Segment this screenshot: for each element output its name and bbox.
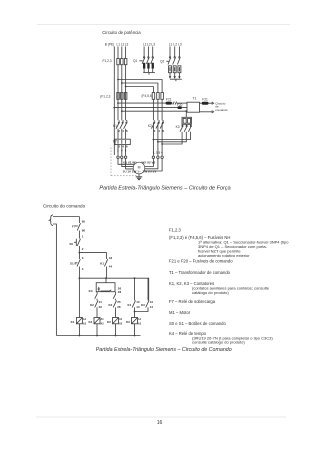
svg-text:acionamento rotativo exterior: acionamento rotativo exterior [198,253,250,258]
svg-text:Q2: Q2 [160,60,164,64]
svg-text:K2: K2 [148,124,152,128]
svg-text:2: 2 [118,129,120,133]
svg-text:T1: T1 [193,96,197,100]
svg-text:5: 5 [126,119,128,123]
svg-text:3~: 3~ [137,169,141,173]
svg-text:4: 4 [122,129,124,133]
svg-text:K1: K1 [100,262,104,266]
svg-text:2: 2 [154,129,156,133]
svg-text:13: 13 [136,300,140,304]
svg-text:K4: K4 [88,320,92,324]
svg-text:6: 6 [126,129,128,133]
svg-text:K3: K3 [141,303,145,307]
svg-text:K1: K1 [113,124,117,128]
svg-text:F20: F20 [177,103,183,107]
svg-text:S1 E: S1 E [70,262,77,266]
svg-text:13: 13 [150,300,154,304]
svg-text:F7: F7 [72,224,76,228]
svg-text:F21: F21 [166,98,172,102]
svg-text:2W 2U 2V: 2W 2U 2V [143,169,157,173]
svg-text:2: 2 [82,247,84,251]
svg-text:1: 1 [82,235,84,239]
svg-text:F1,2,3: F1,2,3 [169,228,182,233]
svg-text:L3: L3 [151,43,155,47]
svg-text:2: 2 [117,150,119,153]
svg-text:L1: L1 [169,43,173,47]
svg-text:4: 4 [121,150,123,153]
svg-text:K1: K1 [127,303,131,307]
svg-text:L3: L3 [178,43,182,47]
svg-text:T1 – Transformador de comando: T1 – Transformador de comando [169,270,231,275]
svg-text:B (PE): B (PE) [105,43,114,47]
svg-text:14: 14 [136,305,140,309]
svg-text:S0: S0 [69,242,73,246]
svg-text:A1: A1 [101,318,105,321]
svg-text:3: 3 [122,119,124,123]
svg-text:5: 5 [162,119,164,123]
svg-text:96: 96 [82,229,86,233]
svg-text:1U 1V 1W: 1U 1V 1W [123,169,137,173]
svg-text:L2: L2 [173,43,177,47]
svg-text:Q1: Q1 [133,59,137,63]
svg-text:K1: K1 [71,320,75,324]
svg-text:A2: A2 [138,323,142,326]
svg-text:1: 1 [154,119,156,123]
svg-text:M1 – Motor: M1 – Motor [169,310,191,315]
svg-text:catálogo do produto): catálogo do produto) [192,290,229,295]
svg-text:A1: A1 [119,318,123,321]
svg-text:(F1,2,3: (F1,2,3 [100,94,110,98]
svg-text:44: 44 [109,265,113,269]
svg-text:A2: A2 [83,323,87,326]
svg-text:comando: comando [215,108,228,112]
svg-text:(F4,5,6): (F4,5,6) [142,94,153,98]
svg-text:16: 16 [157,420,163,426]
svg-text:U1 V1 W1: U1 V1 W1 [123,160,137,164]
svg-text:consulte catálogo do produto): consulte catálogo do produto) [192,340,245,345]
svg-text:Circuito do comando: Circuito do comando [43,204,86,209]
svg-text:F7: F7 [113,140,117,144]
svg-text:L 1 5 4: L 1 5 4 [153,151,163,155]
svg-text:F7 – Relé de sobrecarga: F7 – Relé de sobrecarga [169,299,216,304]
svg-text:A1: A1 [138,318,142,321]
svg-text:F21: F21 [202,98,208,102]
svg-text:6: 6 [162,129,164,133]
svg-text:3: 3 [158,119,160,123]
svg-text:K3: K3 [89,289,93,293]
svg-text:A2: A2 [119,323,123,326]
svg-text:26: 26 [117,305,121,309]
svg-text:L1: L1 [143,43,147,47]
svg-text:43: 43 [109,256,113,260]
svg-text:K2: K2 [108,303,112,307]
svg-text:A2: A2 [101,323,105,326]
svg-text:A1: A1 [83,318,87,321]
svg-text:K3: K3 [126,320,130,324]
svg-text:F21 e F20 – Fusíveis de comand: F21 e F20 – Fusíveis de comando [169,259,233,264]
svg-text:3: 3 [82,256,84,260]
svg-text:W2 U2 V2: W2 U2 V2 [141,160,155,164]
svg-text:4: 4 [82,267,84,271]
svg-text:1: 1 [118,119,120,123]
svg-text:Partida Estrela-Triângulo Siem: Partida Estrela-Triângulo Siemens – Circ… [99,186,230,192]
svg-text:Circuito de potência: Circuito de potência [102,30,141,35]
svg-text:K2: K2 [90,303,94,307]
svg-text:F1,2,3: F1,2,3 [103,59,112,63]
svg-text:95: 95 [82,220,86,224]
svg-text:L3: L3 [125,43,129,47]
svg-text:6: 6 [125,150,127,153]
svg-text:4: 4 [158,129,160,133]
svg-text:K3: K3 [176,125,180,129]
svg-text:K2: K2 [107,320,111,324]
svg-text:L2: L2 [147,43,151,47]
svg-text:S0 e S1 – Botões de comando: S0 e S1 – Botões de comando [169,321,226,326]
svg-text:Partida Estrela-Triângulo Siem: Partida Estrela-Triângulo Siemens – Circ… [96,347,232,353]
svg-text:28: 28 [118,290,122,294]
svg-text:14: 14 [150,305,154,309]
svg-text:L1: L1 [117,43,121,47]
svg-text:22: 22 [99,305,103,309]
svg-text:21: 21 [99,300,103,304]
svg-text:25: 25 [117,300,121,304]
